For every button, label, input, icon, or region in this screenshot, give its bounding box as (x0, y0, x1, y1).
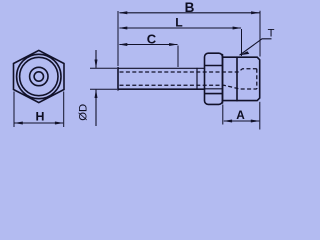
thread runout line (196, 68, 198, 89)
ext L right (241, 29, 243, 56)
dim B (120, 12, 260, 14)
hexagon end view (14, 50, 65, 102)
bore bottom dashed (120, 85, 257, 89)
svg-text:A: A (236, 108, 245, 122)
ext H left (13, 92, 15, 128)
svg-text:ØD: ØD (78, 104, 90, 121)
dim C (120, 44, 178, 46)
ext shaft bottom (90, 88, 117, 90)
svg-text:C: C (147, 32, 157, 47)
ext left common (117, 11, 119, 66)
dim A (224, 120, 259, 122)
body hex face line (236, 57, 238, 100)
svg-text:L: L (175, 16, 183, 30)
bore circle outer (30, 67, 48, 85)
dim H (15, 122, 64, 124)
bore top dashed (120, 69, 257, 72)
svg-text:B: B (185, 0, 195, 15)
dim L (120, 27, 242, 29)
ext H right (63, 92, 65, 128)
hidden (dashed) bore lines (120, 69, 257, 89)
svg-text:T: T (268, 28, 275, 40)
svg-text:H: H (36, 110, 45, 124)
chamfer circle outer (17, 54, 61, 98)
nut hex section (205, 53, 223, 104)
ext shaft top (90, 67, 117, 69)
nut vertex lines (205, 66, 222, 94)
ext C right (177, 46, 179, 68)
dim OD lower (95, 90, 97, 126)
shaft top edge (118, 67, 205, 69)
bore circle inner (34, 72, 43, 81)
ext B right (259, 11, 261, 57)
extension lines (14, 11, 260, 130)
dimension lines (14, 11, 272, 126)
ext A left (222, 105, 224, 125)
body outline (223, 57, 260, 100)
tube end dashed (256, 69, 258, 89)
tube hidden edge under nut (205, 88, 223, 90)
leader T (240, 39, 272, 55)
washer circle (20, 57, 58, 95)
nut right face line (222, 55, 224, 104)
dim OD upper (95, 50, 97, 68)
shaft bottom edge and left face (118, 68, 205, 90)
ext A right (259, 102, 261, 130)
